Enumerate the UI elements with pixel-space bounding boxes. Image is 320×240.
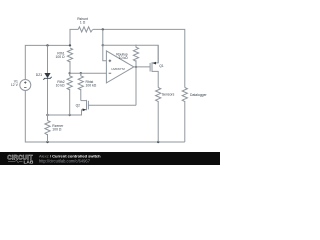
footer title text <box>39 154 101 164</box>
svg-text:Sensors: Sensors <box>162 92 175 96</box>
svg-text:http://circuitlab.com/c/64967: http://circuitlab.com/c/64967 <box>39 159 91 164</box>
resistor Rzener <box>45 121 50 143</box>
resistor Datalogger <box>182 88 187 143</box>
label Datalogger <box>190 93 207 97</box>
label Q1 <box>159 64 164 68</box>
wire minus input <box>70 72 107 74</box>
label Q2 <box>76 103 81 107</box>
voltage source V1 <box>20 80 31 91</box>
wire plus input <box>103 29 158 63</box>
resistor Rth1 <box>67 48 72 73</box>
svg-text:100 Ω: 100 Ω <box>52 128 62 132</box>
svg-text:10 kΩ: 10 kΩ <box>56 84 65 88</box>
label Rhist value <box>86 80 97 88</box>
op-amp U1 LMC6772 <box>106 51 149 83</box>
resistor Rshunt <box>78 27 93 32</box>
svg-text:LMC6772: LMC6772 <box>111 67 125 71</box>
svg-text:Datalogger: Datalogger <box>190 93 207 97</box>
label Rth2 value <box>56 80 65 88</box>
label V1 value <box>11 79 19 87</box>
transistor Q2 <box>81 100 136 110</box>
footer logo CircuitLab <box>7 156 34 166</box>
transistor Q1 <box>150 45 158 87</box>
resistor Rpullup <box>133 45 138 106</box>
svg-text:10 kΩ: 10 kΩ <box>119 56 128 60</box>
label Sensors <box>162 92 175 96</box>
svg-text:100 Ω: 100 Ω <box>55 55 65 59</box>
zener diode DZ1 <box>43 73 51 80</box>
svg-text:Q1: Q1 <box>159 64 164 68</box>
label Rpullup value <box>116 52 128 60</box>
label Rth1 value <box>55 52 65 60</box>
svg-text:12 V: 12 V <box>11 83 19 87</box>
label DZ1 <box>36 73 43 77</box>
wire top rail <box>70 29 185 87</box>
label Rshunt value <box>77 17 88 24</box>
svg-text:1 Ω: 1 Ω <box>80 20 86 24</box>
wire left rail <box>25 45 185 142</box>
wire bottom middle <box>48 110 82 115</box>
resistor Sensors <box>156 88 161 143</box>
label Rzener value <box>52 124 64 132</box>
svg-text:Q2: Q2 <box>76 103 81 107</box>
svg-text:LAB: LAB <box>24 160 34 165</box>
svg-text:100 kΩ: 100 kΩ <box>86 84 97 88</box>
wire zener branch <box>47 45 49 120</box>
resistor Rth2 <box>67 73 72 115</box>
node junction dots <box>46 28 159 143</box>
footer bar <box>0 152 220 165</box>
svg-text:DZ1: DZ1 <box>36 73 43 77</box>
resistor Rhist <box>78 73 83 100</box>
label LMC6772 <box>111 67 125 71</box>
